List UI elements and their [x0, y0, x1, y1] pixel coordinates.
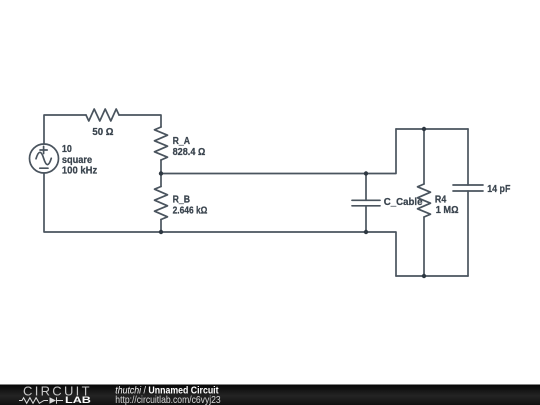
svg-text:14 pF: 14 pF: [487, 183, 510, 195]
svg-text:C_Cable: C_Cable: [384, 197, 423, 208]
svg-text:50 Ω: 50 Ω: [92, 127, 113, 138]
svg-text:828.4 Ω: 828.4 Ω: [173, 146, 206, 158]
svg-text:2.646 kΩ: 2.646 kΩ: [173, 205, 208, 217]
svg-text:100 kHz: 100 kHz: [62, 165, 97, 177]
svg-text:LAB: LAB: [65, 395, 91, 405]
svg-text:1 MΩ: 1 MΩ: [436, 204, 459, 216]
svg-text:http://circuitlab.com/c6vyj23: http://circuitlab.com/c6vyj23: [115, 395, 220, 405]
svg-text:R_A: R_A: [173, 135, 190, 147]
